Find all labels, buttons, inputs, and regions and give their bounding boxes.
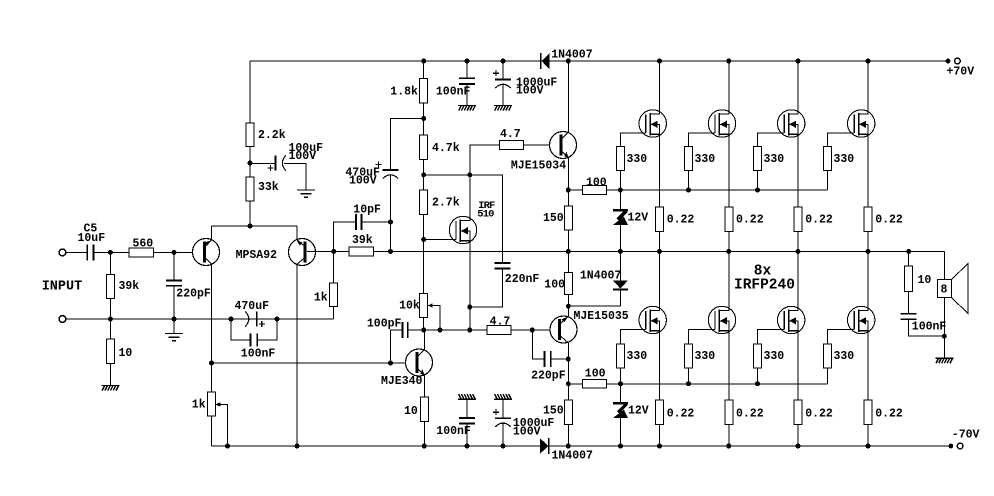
resistor 4.7 bottom driver base <box>487 326 511 335</box>
terminal input top <box>59 249 66 256</box>
capacitor 100nF zobel <box>901 313 917 315</box>
resistor 0.22 bottom 4 <box>864 400 872 424</box>
svg-text:INPUT: INPUT <box>42 279 83 294</box>
svg-text:100nF: 100nF <box>241 348 276 361</box>
zener 12V bottom <box>620 384 622 402</box>
node 4.7k/2.7k junction <box>421 172 426 177</box>
transistor MPSA92 right <box>289 239 316 266</box>
svg-text:100V: 100V <box>516 85 544 98</box>
svg-text:330: 330 <box>834 153 855 166</box>
resistor 33k <box>246 177 254 201</box>
mosfet IRFP240 top 1 <box>639 110 666 137</box>
wire MJE340 emitter to 10 <box>423 375 425 397</box>
node IRF510 source / 220nF bottom <box>467 305 472 310</box>
svg-text:39k: 39k <box>352 234 373 247</box>
node 470uF bottom on rail <box>388 249 393 254</box>
svg-text:2.2k: 2.2k <box>258 129 286 142</box>
node 2.2k/33k/100uF junction <box>248 161 253 166</box>
svg-text:330: 330 <box>627 153 648 166</box>
wire input to C5 <box>66 251 87 253</box>
resistor 150 top <box>564 206 572 230</box>
svg-text:1.8k: 1.8k <box>390 85 418 98</box>
node 150 bottom rail <box>566 444 571 449</box>
resistor 330 bottom 4 <box>824 344 832 368</box>
node zener on output rail <box>618 249 623 254</box>
svg-text:0.22: 0.22 <box>875 408 903 421</box>
transistor MJE15035 <box>550 316 577 343</box>
wire C5 to 560 <box>94 251 130 253</box>
resistor 330 bottom 3 <box>754 344 762 368</box>
resistor 2.7k <box>420 190 428 215</box>
svg-text:10: 10 <box>918 274 932 287</box>
node collector/MJE340 base line <box>209 361 214 366</box>
node emitter-join/33k <box>248 224 253 229</box>
svg-text:0.22: 0.22 <box>736 214 764 227</box>
wire IRF510 drain <box>469 175 471 217</box>
capacitor 1000uF 100V top supply <box>501 59 506 64</box>
resistor 0.22 bottom 3 <box>794 400 802 424</box>
node speaker/zobel ground <box>942 334 947 339</box>
node 10k wiper on VAS line <box>438 328 443 333</box>
resistor 0.22 top 2 <box>725 207 733 232</box>
resistor 0.22 top 4 <box>864 207 872 232</box>
node 1.8k bottom bootstrap <box>421 116 426 121</box>
svg-text:100pF: 100pF <box>367 317 402 330</box>
node zener top bus <box>618 188 623 193</box>
svg-text:10k: 10k <box>399 299 420 312</box>
node right collector on bottom rail <box>295 444 300 449</box>
node MJE15034 collector on rail <box>566 59 571 64</box>
node 1k wiper on bottom rail <box>225 444 230 449</box>
svg-text:330: 330 <box>627 350 648 363</box>
node zener bottom bus <box>618 381 623 386</box>
wire 39k to output rail <box>374 250 391 252</box>
diode 1N4007 vertical <box>619 251 621 280</box>
wire MJE340 collector up <box>423 330 425 350</box>
svg-text:510: 510 <box>477 208 494 220</box>
resistor 100 top gate bus <box>582 186 606 195</box>
svg-text:MJE15035: MJE15035 <box>574 310 629 323</box>
node 39k bottom <box>108 317 113 322</box>
wire right collector down <box>296 264 298 446</box>
terminal -70V <box>948 444 953 449</box>
wire node to IRF510 drain and 220nF <box>424 175 503 263</box>
ground hatched speaker <box>935 358 953 363</box>
svg-text:1N4007: 1N4007 <box>580 270 622 283</box>
node 220pF top <box>172 250 177 255</box>
capacitor 470uF parallel loop <box>229 317 234 322</box>
resistor 10 zobel <box>908 251 910 266</box>
svg-text:100V: 100V <box>513 426 541 439</box>
speaker 8 ohm <box>943 251 945 279</box>
mosfet IRFP240 bottom 2 <box>708 306 735 333</box>
capacitor 100nF top supply <box>465 59 470 64</box>
svg-text:0.22: 0.22 <box>875 214 903 227</box>
mosfet IRFP240 bottom 4 <box>848 306 875 333</box>
svg-text:220pF: 220pF <box>176 287 211 300</box>
svg-text:100: 100 <box>585 368 606 381</box>
wire 2.2k to 33k <box>249 147 251 178</box>
svg-text:330: 330 <box>695 350 716 363</box>
wire 100uF branch <box>250 163 275 165</box>
svg-text:+70V: +70V <box>947 65 975 78</box>
mosfet IRFP240 top 3 <box>778 110 805 137</box>
mosfet IRFP240 bottom 1 <box>639 306 666 333</box>
resistor 330 top 1 <box>617 147 625 171</box>
svg-text:MPSA92: MPSA92 <box>236 249 278 262</box>
svg-text:IRFP240: IRFP240 <box>734 277 795 293</box>
resistor 1k feedback shunt <box>333 251 335 283</box>
svg-text:220pF: 220pF <box>531 369 566 382</box>
resistor 39k vertical <box>109 252 111 274</box>
svg-text:10: 10 <box>404 405 418 418</box>
resistor 1.8k <box>421 59 426 64</box>
svg-text:33k: 33k <box>258 181 279 194</box>
svg-text:150: 150 <box>543 212 564 225</box>
svg-text:1N4007: 1N4007 <box>551 49 593 62</box>
capacitor 100nF parallel loop <box>231 319 250 340</box>
wire: MPSA92 emitter join rail <box>212 225 298 227</box>
svg-text:MJE15034: MJE15034 <box>511 160 566 173</box>
ground hatched under 100nF top <box>458 106 476 111</box>
node 10pF/470uF <box>388 220 393 225</box>
capacitor 10pF loop <box>334 222 356 251</box>
svg-text:100nF: 100nF <box>436 425 471 438</box>
mosfet IRFP240 bottom 3 <box>778 306 805 333</box>
resistor 100 MJE15035 emitter <box>567 251 569 272</box>
wire bootstrap to 470uF <box>391 119 424 171</box>
svg-text:150: 150 <box>543 404 564 417</box>
capacitor 220pF bottom <box>532 330 544 359</box>
wire MJE340 base line <box>212 362 406 364</box>
potentiometer 10k <box>420 294 428 318</box>
resistor 10 input <box>109 319 111 339</box>
wire 4.7 to MJE15035 base <box>511 329 550 331</box>
svg-text:12V: 12V <box>628 211 649 224</box>
svg-text:1k: 1k <box>192 398 206 411</box>
node zener bottom rail <box>618 444 623 449</box>
svg-text:0.22: 0.22 <box>667 214 695 227</box>
svg-text:4.7k: 4.7k <box>432 142 460 155</box>
node 39k top <box>108 250 113 255</box>
svg-text:-70V: -70V <box>952 429 980 442</box>
svg-text:1N4007: 1N4007 <box>552 449 594 462</box>
wire: +70V top rail <box>250 60 948 62</box>
node MJE15035 emitter/diode <box>566 304 571 309</box>
wire right base to feedback node <box>307 250 349 252</box>
resistor 0.22 top 1 <box>656 207 664 232</box>
svg-text:560: 560 <box>133 237 154 250</box>
svg-text:12V: 12V <box>628 405 649 418</box>
wire left emitter <box>211 226 213 240</box>
wire: 2.2k column from top rail <box>249 61 251 123</box>
wire riser to 4.7 <box>470 145 500 175</box>
svg-text:330: 330 <box>834 350 855 363</box>
svg-text:4.7: 4.7 <box>490 316 511 329</box>
wire IRF510 source down <box>469 243 471 330</box>
wire 4.7 to MJE15034 base <box>524 144 550 146</box>
svg-text:100: 100 <box>586 176 607 189</box>
resistor 0.22 top 3 <box>794 207 802 232</box>
resistor 2.2k <box>246 123 254 147</box>
node 220pF bottom <box>172 317 177 322</box>
capacitor 100nF bottom supply <box>458 394 476 399</box>
node collector/220pF <box>566 357 571 362</box>
resistor 560 <box>129 248 153 257</box>
svg-text:2.7k: 2.7k <box>432 197 460 210</box>
svg-text:220nF: 220nF <box>505 273 540 286</box>
wire 100uF to ground <box>284 164 306 191</box>
node IRF510 drain riser <box>467 172 472 177</box>
wire 33k to emitter rail <box>249 201 251 226</box>
svg-text:100V: 100V <box>289 150 317 163</box>
svg-text:0.22: 0.22 <box>736 408 764 421</box>
node 150 on output rail <box>566 249 571 254</box>
ground hatched under 1000uF top <box>494 106 512 111</box>
resistor 4.7 top driver base <box>500 141 524 150</box>
ground hatched under 10 <box>101 386 119 391</box>
wire VAS line <box>408 329 487 331</box>
node gate bus bottom left <box>566 381 571 386</box>
resistor 330 top 2 <box>685 147 693 171</box>
node IRF510 source on VAS line <box>467 328 472 333</box>
wire 560 to base <box>153 251 192 253</box>
resistor 150 bottom <box>564 400 572 424</box>
svg-text:0.22: 0.22 <box>667 408 695 421</box>
svg-text:330: 330 <box>695 153 716 166</box>
capacitor 1000uF 100V bottom supply <box>494 394 512 399</box>
wire gate lead IRF510 <box>424 239 450 241</box>
resistor 10 MJE340 <box>420 397 428 421</box>
ground (earth) under 100uF <box>297 190 315 197</box>
svg-text:330: 330 <box>764 153 785 166</box>
node emitter/gate bus top <box>566 188 571 193</box>
resistor 330 bottom 2 <box>685 344 693 368</box>
svg-text:100nF: 100nF <box>912 320 947 333</box>
resistor 4.7k <box>420 135 428 160</box>
ground (earth) under 220pF <box>173 319 175 334</box>
wire input ground line <box>66 318 334 320</box>
terminal input bottom <box>59 316 66 323</box>
resistor 330 bottom 1 <box>617 344 625 368</box>
svg-text:100: 100 <box>544 279 565 292</box>
wire: -70V bottom rail <box>212 445 950 447</box>
svg-text:10: 10 <box>119 347 133 360</box>
capacitor 100uF 100V <box>274 155 276 170</box>
node feedback base <box>331 249 336 254</box>
wire MJE15034 collector <box>567 61 569 132</box>
diode 1N4007 top rail <box>540 53 542 69</box>
node IRF510 gate <box>421 237 426 242</box>
svg-text:4.7: 4.7 <box>500 128 521 141</box>
svg-text:8: 8 <box>941 284 948 297</box>
mosfet IRFP240 top 4 <box>848 110 875 137</box>
wire left collector down <box>211 264 213 392</box>
svg-text:10uF: 10uF <box>78 232 106 245</box>
resistor 330 top 3 <box>754 147 762 171</box>
capacitor 220nF <box>495 262 511 264</box>
svg-text:100nF: 100nF <box>436 86 471 99</box>
capacitor 100pF <box>391 330 403 363</box>
capacitor C5 10uF <box>86 245 88 261</box>
node zobel on output rail <box>906 249 911 254</box>
wire MJE15034 emitter <box>567 158 569 206</box>
wire MJE15035 collector down <box>567 343 569 400</box>
wire: output rail <box>391 250 945 252</box>
svg-text:MJE340: MJE340 <box>381 375 423 388</box>
node 10 on bottom rail <box>422 444 427 449</box>
transistor MJE340 <box>406 349 433 376</box>
svg-text:100V: 100V <box>349 174 377 187</box>
resistor 0.22 bottom 2 <box>725 400 733 424</box>
resistor 100 bottom gate bus <box>582 379 606 388</box>
capacitor 220pF input <box>173 252 175 280</box>
zener 12V top <box>619 190 621 209</box>
potentiometer 1k <box>208 392 216 416</box>
node 100pF elbow on base line <box>388 361 393 366</box>
diode 1N4007 bottom rail <box>540 438 548 454</box>
wire right emitter <box>296 226 298 240</box>
transistor MPSA92 left <box>193 239 220 266</box>
node MJE340 collector on VAS line <box>421 328 426 333</box>
svg-text:470uF: 470uF <box>235 300 270 313</box>
node 220pF/base <box>530 328 535 333</box>
svg-text:0.22: 0.22 <box>805 214 833 227</box>
svg-text:10pF: 10pF <box>353 203 381 216</box>
svg-text:330: 330 <box>764 350 785 363</box>
resistor 39k feedback <box>349 247 374 256</box>
capacitor 470uF 100V bootstrap <box>383 169 399 171</box>
svg-text:1k: 1k <box>314 292 328 305</box>
resistor 0.22 bottom 1 <box>656 400 664 424</box>
svg-text:39k: 39k <box>119 280 140 293</box>
mosfet IRFP240 top 2 <box>708 110 735 137</box>
transistor IRF510 mosfet <box>449 216 476 243</box>
svg-text:0.22: 0.22 <box>805 408 833 421</box>
resistor 330 top 4 <box>824 147 832 171</box>
terminal +70V <box>946 59 951 64</box>
transistor MJE15034 <box>550 132 577 159</box>
